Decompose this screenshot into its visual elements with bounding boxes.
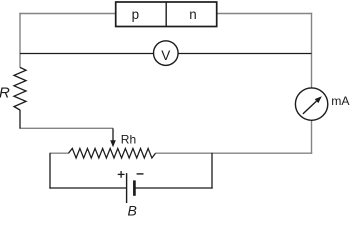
wire battery loop left vertical xyxy=(49,153,51,189)
wire elbow R-bottom to wiper xyxy=(19,127,113,129)
dark wires xyxy=(20,54,312,189)
svg-text:n: n xyxy=(189,7,196,22)
rheostat Rh zigzag xyxy=(69,148,156,158)
wire voltmeter line right xyxy=(178,53,311,55)
wire voltmeter line left xyxy=(20,53,154,55)
battery B short thick plate (-) xyxy=(133,180,136,195)
rheostat wiper arrowhead xyxy=(110,140,116,147)
label + xyxy=(118,171,125,178)
wire left vertical upper xyxy=(19,13,21,68)
wire right vertical upper (to mA meter) xyxy=(311,13,313,88)
wire top loop (gray): top wire, left vertical upper, right vertical xyxy=(19,13,312,154)
wire rheostat left lead xyxy=(50,152,69,154)
svg-text:p: p xyxy=(132,7,139,22)
p-n box divider xyxy=(165,2,167,27)
wire left vertical below resistor R xyxy=(19,110,21,129)
p-n junction box xyxy=(116,2,217,27)
resistor R zigzag xyxy=(14,67,26,110)
wire wiper vertical xyxy=(112,128,114,141)
label minus xyxy=(137,173,144,175)
mA needle xyxy=(303,101,317,114)
svg-text:B: B xyxy=(128,203,137,216)
svg-text:Rh: Rh xyxy=(121,132,136,146)
svg-text:mA: mA xyxy=(331,94,350,108)
battery B long plate (+) xyxy=(126,173,128,203)
wire right vertical lower (mA meter to rheostat line) xyxy=(311,120,313,154)
voltmeter V circle xyxy=(154,41,179,66)
wire battery bottom left xyxy=(49,187,126,189)
wire battery loop right vertical xyxy=(211,153,213,189)
wire top left: node junction to p-n box xyxy=(19,13,115,15)
wire battery bottom right xyxy=(135,187,212,189)
svg-text:V: V xyxy=(161,48,170,63)
milliammeter mA circle xyxy=(295,88,327,120)
wire rheostat right lead xyxy=(155,152,312,154)
mA needle arrowhead xyxy=(315,96,322,103)
svg-text:R: R xyxy=(0,85,10,102)
wire top right: p-n box to right vertical xyxy=(217,13,313,15)
